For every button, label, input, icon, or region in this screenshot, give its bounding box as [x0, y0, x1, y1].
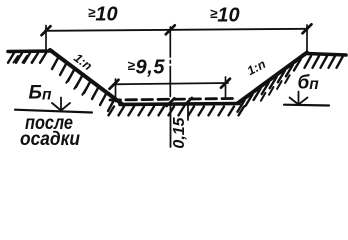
extension line left of 9,5	[115, 79, 117, 102]
left slope line 1:n	[50, 50, 122, 104]
vertical centerline (dash-dot)	[169, 27, 171, 97]
tick 9,5 left	[110, 80, 119, 89]
svg-text:Бп: Бп	[29, 83, 52, 104]
0,15 leader line right	[187, 103, 189, 120]
left extension line	[45, 26, 47, 52]
hatching under left ground	[8, 53, 46, 63]
extension line right of 9,5	[225, 77, 227, 98]
top dimension line	[45, 29, 308, 31]
hatching under left slope	[52, 58, 114, 111]
tick 9,5 right	[221, 79, 230, 88]
svg-text:0,15: 0,15	[171, 116, 188, 148]
ground surface line right	[306, 54, 346, 56]
0,15 leader line left	[170, 104, 172, 147]
hatching under channel bottom	[109, 107, 245, 116]
right slope line 1:n	[238, 53, 307, 104]
hatching under right slope	[238, 59, 301, 112]
dashed bottom line after settlement	[110, 99, 233, 101]
channel bottom line	[120, 104, 239, 105]
tick right	[303, 24, 312, 33]
hatching under right ground	[305, 56, 344, 68]
Bp right arrow	[290, 92, 308, 105]
tick left	[42, 26, 51, 35]
Bp left arrow	[52, 98, 70, 111]
Bp left level line	[15, 110, 92, 113]
tick 0,15 right	[184, 98, 192, 106]
Bp right level line	[284, 104, 329, 107]
ground surface line left	[8, 49, 52, 53]
svg-text:осадки: осадки	[20, 129, 80, 150]
tick center	[166, 25, 175, 34]
right extension line	[306, 25, 308, 53]
svg-text:бп: бп	[298, 73, 320, 94]
tick 0,15 left	[167, 98, 175, 106]
dimension line 9,5	[114, 83, 229, 84]
